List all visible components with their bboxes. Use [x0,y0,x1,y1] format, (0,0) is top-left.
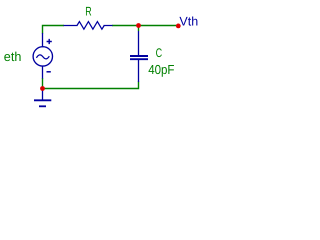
junction dot at ground rail [40,86,45,91]
voltage source plus sign [47,39,52,44]
wire: resistor right lead to Vth terminal [112,25,177,27]
wire: capacitor top stub [138,26,140,32]
svg-text:R: R [85,5,91,19]
wire: source minus to ground junction [42,78,44,89]
capacitor C top plate [130,55,148,57]
ground bar long [34,99,51,101]
wire: capacitor bottom to ground rail [43,82,139,89]
ground bar short [39,105,46,107]
capacitor C bottom lead [138,60,140,82]
wire: top-left corner, node + of source to resistor [43,26,65,34]
svg-text:40pF: 40pF [148,62,174,77]
voltage source eth sine symbol [36,55,49,59]
resistor R right lead [104,25,113,27]
capacitor C bottom plate [130,58,148,60]
resistor R zigzag body [77,22,104,30]
ground lead [42,89,44,101]
resistor R left lead [64,25,78,27]
voltage source eth top lead [42,33,44,47]
voltage source eth bottom lead [42,66,44,79]
capacitor C top lead [138,31,140,56]
junction dot at capacitor top [136,23,141,28]
voltage source eth circle [33,47,52,66]
svg-text:Vth: Vth [179,14,198,28]
svg-text:eth: eth [4,49,22,64]
svg-text:C: C [156,46,163,60]
voltage source minus sign [47,71,51,73]
terminal dot Vth [176,24,181,29]
